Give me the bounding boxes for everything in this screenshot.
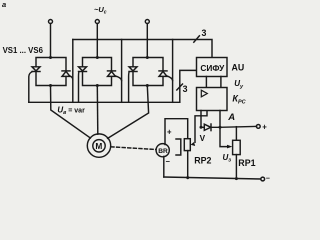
svg-text:RP2: RP2 (194, 156, 211, 166)
node bottom pair 3 (146, 84, 149, 87)
terminal phase 2 (95, 20, 99, 24)
svg-text:RP1: RP1 (238, 158, 255, 168)
bracket wiper mark RP2 (176, 139, 181, 155)
gate right pair2 (115, 76, 122, 81)
wire gate line top (3 conductors) (73, 40, 212, 58)
node diode anode (200, 126, 203, 129)
wire right-gate vertical pair3 (172, 40, 174, 103)
svg-text:−: − (266, 176, 270, 183)
svg-text:+: + (167, 127, 172, 136)
svg-text:VS1 ... VS6: VS1 ... VS6 (3, 46, 44, 55)
wire bottom rail (164, 177, 261, 179)
wire right-gate vertical pair2 (121, 40, 123, 103)
svg-text:AU: AU (232, 63, 245, 73)
wire riser to SIFU input (180, 70, 197, 102)
wire RP2 bottom to rail (187, 151, 189, 179)
node top pair 2 (96, 56, 99, 59)
block SIFU (AU) (197, 58, 228, 77)
gate left pair1 (29, 72, 32, 103)
svg-text:3: 3 (202, 28, 207, 38)
slash mark 3-wire bottom (177, 84, 183, 90)
node A (219, 126, 222, 129)
node RP1 on rail (235, 177, 238, 180)
slash mark 3-wire top (194, 36, 200, 42)
tacho BR circle (156, 144, 169, 157)
svg-text:Uв = var: Uв = var (57, 106, 85, 117)
svg-text:Uу: Uу (234, 79, 244, 90)
wire branch to RP1 top (235, 127, 237, 141)
motor M outer circle (87, 134, 110, 157)
thyristor VS left pair1 (down) (32, 67, 40, 72)
terminal plus (256, 125, 260, 129)
thyristor pair 3 loop (133, 58, 163, 86)
svg-text:BR: BR (158, 148, 168, 155)
arrow RP2 wiper (191, 142, 196, 146)
mechanical coupling dashed (111, 147, 156, 150)
svg-text:+: + (262, 122, 267, 131)
wire motor phase 1 (51, 86, 91, 139)
thyristor pair 2 loop (83, 58, 112, 86)
gate left pair3 (128, 72, 131, 103)
wire node A to plus terminal (220, 125, 257, 128)
thyristor VS right pair2 (up) (108, 71, 116, 77)
wire regulator to node A (219, 111, 221, 128)
potentiometer RP2 body (184, 139, 190, 151)
motor M inner circle (93, 140, 105, 152)
svg-text:Uз: Uз (223, 153, 232, 164)
terminal phase 3 (145, 20, 149, 24)
wire motor phase 3 (108, 86, 149, 139)
wire diode row (201, 126, 220, 128)
thyristor VS right pair1 (up) (62, 71, 70, 77)
thyristor VS right pair3 (up) (159, 71, 167, 77)
thyristor VS left pair3 (down) (129, 67, 137, 72)
wire feed phase 3 (146, 24, 148, 58)
svg-text:~Uc: ~Uc (94, 5, 107, 16)
wire motor phase 2 (96, 86, 99, 135)
gate right pair1 (70, 76, 73, 80)
thyristor pair 1 loop (36, 58, 66, 86)
wire BR plus to RP2 top (165, 119, 188, 145)
node RP2 on rail (186, 176, 189, 179)
svg-text:СИФУ: СИФУ (200, 63, 225, 73)
wire gate bus bottom (29, 101, 180, 103)
node bottom pair 2 (96, 84, 99, 87)
wire node A down to RP1 wiper (220, 127, 228, 146)
wire regulator to diode anode (200, 111, 202, 128)
wire feedback from regulator to RP2 wiper (195, 111, 207, 143)
svg-text:−: − (166, 157, 171, 166)
terminal minus (261, 177, 265, 181)
gate left pair2 (78, 72, 80, 103)
gate right pair3 (167, 76, 173, 81)
svg-text:V: V (200, 134, 206, 143)
wire SIFU-regulator connector right (220, 77, 222, 88)
potentiometer RP1 body (233, 140, 241, 154)
wire RP1 bottom to rail (235, 155, 237, 179)
diode V (204, 124, 211, 131)
svg-text:3: 3 (183, 84, 188, 94)
block speed regulator (197, 88, 228, 111)
amplifier triangle (201, 90, 207, 97)
wire SIFU-regulator connector left (205, 77, 207, 88)
node top pair 3 (146, 56, 149, 59)
wire BR minus to rail (163, 156, 165, 177)
svg-text:КРС: КРС (232, 94, 246, 106)
node top pair 1 (49, 56, 52, 59)
wire feed phase 1 (50, 24, 52, 58)
thyristor VS left pair2 (down) (79, 67, 87, 72)
terminal phase 1 (49, 20, 53, 24)
svg-text:A: A (227, 112, 235, 123)
svg-text:a: a (2, 0, 6, 9)
node bottom pair 1 (49, 84, 52, 87)
arrow RP1 wiper (227, 145, 232, 149)
wire feed phase 2 (96, 24, 98, 58)
svg-text:M: M (95, 141, 102, 151)
wire right-gate vertical pair1 (72, 40, 74, 103)
